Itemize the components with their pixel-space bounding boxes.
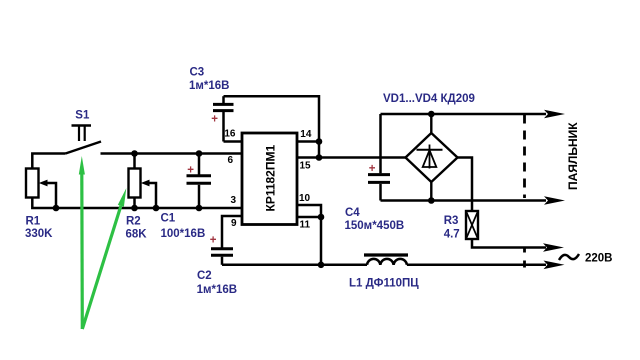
wire C3 top loop to pin14 node — [224, 96, 320, 157]
diode bridge VD1-VD4 — [406, 114, 458, 201]
svg-text:9: 9 — [231, 218, 237, 229]
svg-text:VD1...VD4 КД209: VD1...VD4 КД209 — [383, 93, 475, 105]
IC U1 body KR1182PM1 — [242, 133, 297, 225]
inductor L1 — [364, 255, 408, 265]
svg-text:+: + — [369, 163, 376, 175]
junction node bridge top — [428, 111, 435, 118]
arrowhead 220V top — [543, 243, 564, 252]
wire IC pin 14 stub — [297, 140, 319, 143]
wire bottom rail (R1 bottom to IC pin 3) — [32, 198, 242, 209]
potentiometer R2 wiper — [141, 180, 156, 208]
junction node R2 bottom — [131, 205, 138, 212]
potentiometer R2 body — [129, 169, 141, 198]
junction node bottom rail — [318, 262, 325, 269]
arrowhead 220V bottom — [544, 261, 565, 270]
wire R2 top — [133, 154, 136, 169]
junction node R2 top — [131, 150, 138, 157]
svg-text:+: + — [210, 235, 217, 247]
svg-text:14: 14 — [300, 129, 312, 140]
svg-text:220В: 220В — [585, 253, 613, 265]
wire IC pin 10 stub — [297, 205, 321, 217]
wire bottom long rail (C2 to 220V lower terminal) — [222, 264, 367, 267]
wire L1 to 220V lower arrow — [407, 264, 546, 267]
green arrow 2 (to R2) — [82, 188, 126, 329]
svg-text:10: 10 — [299, 193, 311, 204]
switch S1 actuator symbol — [72, 126, 92, 142]
junction node C1 top — [196, 150, 203, 157]
junction node pin14 — [316, 138, 323, 145]
wire IC pin 11 stub — [297, 217, 321, 265]
dashed connector boundary (upper) — [523, 115, 526, 199]
capacitor C4 — [368, 114, 390, 201]
svg-text:R34.7: R34.7 — [444, 215, 460, 241]
junction node pin11 — [318, 214, 325, 221]
diode symbol inside bridge — [417, 145, 443, 169]
svg-text:6: 6 — [227, 155, 233, 166]
wire top rail right (S1 right contact to IC pin 6) — [101, 152, 243, 155]
wire bottom DC rail (C4 bottom / bridge minus to load return) — [381, 199, 547, 202]
AC tilde symbol — [559, 254, 579, 260]
capacitor C3 — [213, 96, 234, 141]
svg-text:L1 ДФ110ПЦ: L1 ДФ110ПЦ — [349, 277, 419, 289]
resistor R3 (fusible) — [458, 158, 547, 248]
junction node pin15 — [316, 154, 323, 161]
svg-text:16: 16 — [224, 129, 236, 140]
svg-text:+: + — [211, 114, 218, 126]
svg-text:КР1182ПМ1: КР1182ПМ1 — [264, 145, 278, 212]
junction node bridge bottom — [428, 197, 435, 204]
dashed connector boundary (lower, crossing 220V wires) — [523, 247, 526, 268]
wire IC pin 15 to bridge left vertex — [297, 156, 406, 159]
green arrow 1 (to S1 area) — [79, 156, 85, 329]
wire IC pin 16 stub — [224, 140, 243, 143]
wire IC pin 9 stub and C2 top — [222, 216, 242, 248]
arrowhead load bottom — [544, 196, 565, 205]
capacitor C2 — [211, 249, 233, 265]
svg-text:3: 3 — [230, 195, 236, 206]
capacitor C1 — [187, 154, 212, 209]
junction node C1 bottom — [196, 205, 203, 212]
svg-text:+: + — [187, 165, 194, 177]
switch S1 blade — [66, 142, 102, 154]
potentiometer R1 wiper — [39, 180, 56, 208]
svg-text:ПАЯЛЬНИК: ПАЯЛЬНИК — [566, 122, 580, 190]
svg-text:11: 11 — [300, 220, 311, 231]
wire top DC rail (C4 top / bridge plus to load) — [381, 113, 547, 116]
svg-text:S1: S1 — [75, 109, 90, 121]
potentiometer R1 body — [26, 169, 39, 198]
junction node R1 wiper — [53, 205, 60, 212]
arrowhead load top — [544, 110, 565, 119]
wire R2 bottom — [133, 198, 136, 209]
junction node R2 wiper — [153, 205, 160, 212]
wire top rail left (R1 top to switch S1 left contact) — [32, 154, 65, 169]
svg-text:15: 15 — [300, 161, 312, 172]
